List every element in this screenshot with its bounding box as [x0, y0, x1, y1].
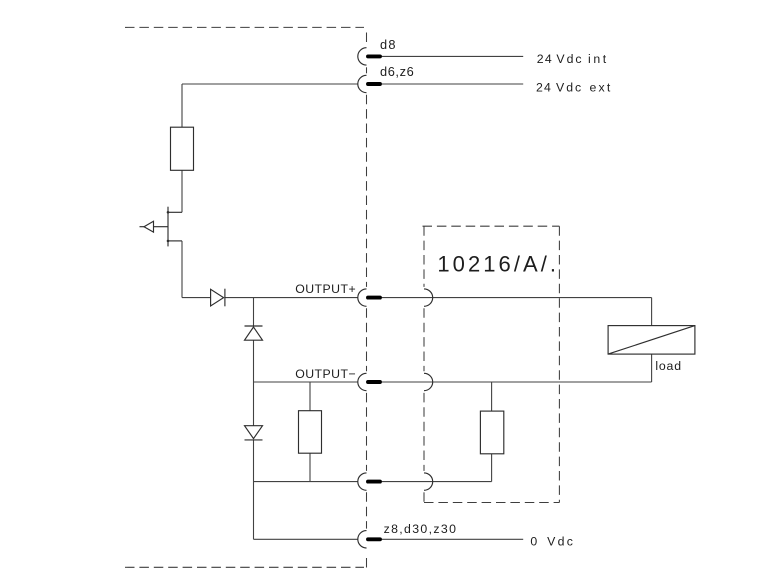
svg-text:24: 24 [536, 81, 552, 95]
svg-text:d6,z6: d6,z6 [380, 64, 414, 79]
svg-text:z8,d30,z30: z8,d30,z30 [384, 522, 458, 536]
svg-text:int: int [588, 52, 609, 66]
svg-text:10216/A/.: 10216/A/. [437, 252, 559, 277]
svg-text:Vdc: Vdc [556, 52, 583, 66]
svg-text:d8: d8 [380, 37, 397, 52]
svg-text:24: 24 [537, 52, 553, 66]
svg-text:Vdc: Vdc [556, 81, 583, 95]
svg-text:OUTPUT+: OUTPUT+ [295, 282, 356, 296]
svg-text:Vdc: Vdc [547, 535, 575, 549]
svg-text:load: load [655, 359, 681, 373]
svg-text:OUTPUT−: OUTPUT− [295, 367, 356, 381]
svg-text:0: 0 [530, 535, 537, 549]
svg-text:ext: ext [590, 81, 613, 95]
